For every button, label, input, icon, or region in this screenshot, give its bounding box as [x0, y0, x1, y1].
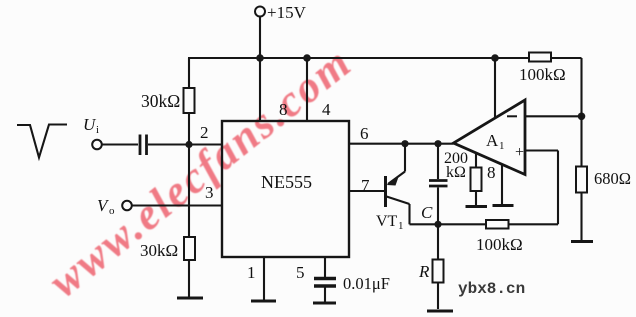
- waveform symbol: [17, 125, 67, 158]
- wire +15V to rail: [259, 17, 261, 59]
- label 0.01uF pin5: [343, 274, 390, 293]
- label 0.01uF input: [118, 156, 165, 175]
- terminal Vo: [122, 201, 132, 211]
- label Ui: [83, 115, 99, 136]
- svg-text:8: 8: [487, 163, 496, 182]
- svg-text:2: 2: [200, 123, 209, 142]
- svg-text:o: o: [109, 205, 115, 217]
- svg-text:30kΩ: 30kΩ: [140, 241, 178, 260]
- resistor 680: [576, 116, 587, 240]
- svg-text:NE555: NE555: [261, 172, 312, 192]
- label 8 opamp: [487, 163, 496, 182]
- label +15V: [267, 3, 307, 22]
- label minus: [507, 115, 517, 117]
- label 6: [360, 124, 369, 143]
- label 30k lower: [140, 241, 178, 260]
- terminal Ui: [92, 140, 102, 150]
- capacitor 0.01uF input: [140, 135, 147, 156]
- wire pin 8: [259, 58, 261, 121]
- junction collector: [401, 140, 408, 147]
- ground 680: [571, 240, 593, 243]
- wire pin 5: [324, 257, 326, 277]
- svg-text:ybx8.cn: ybx8.cn: [458, 280, 525, 298]
- ground pin5: [313, 302, 336, 305]
- svg-text:+15V: +15V: [267, 3, 307, 22]
- svg-text:3: 3: [205, 183, 214, 202]
- label 100k upper: [519, 65, 566, 84]
- opamp supply wire: [494, 58, 496, 118]
- svg-text:A: A: [486, 131, 499, 150]
- label 5: [296, 263, 305, 282]
- resistor 30k lower: [184, 237, 195, 297]
- wire pin 7: [349, 190, 385, 192]
- label 7: [361, 176, 370, 195]
- label 680: [594, 169, 631, 188]
- svg-text:1: 1: [398, 220, 404, 232]
- svg-text:8: 8: [279, 100, 288, 119]
- junction rail pin8: [256, 54, 264, 62]
- label R: [418, 262, 430, 281]
- ground bias: [177, 297, 203, 300]
- terminal +15V: [255, 7, 265, 17]
- wire pin 1: [263, 257, 265, 300]
- label 2: [200, 123, 209, 142]
- label plus: [515, 144, 524, 161]
- svg-text:6: 6: [360, 124, 369, 143]
- label 100k lower: [476, 235, 523, 254]
- label 30k upper: [141, 91, 180, 111]
- label C: [421, 203, 433, 222]
- wire minus input: [525, 115, 582, 117]
- feedback wire: [580, 58, 582, 116]
- resistor 30k upper: [184, 58, 195, 145]
- svg-text:VT: VT: [376, 213, 398, 230]
- svg-text:1: 1: [499, 140, 505, 152]
- wire capacitor to pin2: [148, 143, 222, 145]
- label 200k: [444, 150, 468, 181]
- wire cap to ground: [324, 287, 326, 302]
- capacitor C: [429, 144, 448, 225]
- ground 200k: [466, 205, 488, 208]
- junction cap C branch: [434, 140, 441, 147]
- bias divider wire: [188, 145, 190, 238]
- label 8: [279, 100, 288, 119]
- svg-text:1: 1: [247, 263, 256, 282]
- label 4: [322, 100, 331, 119]
- resistor 200k: [471, 153, 482, 205]
- svg-text:30kΩ: 30kΩ: [141, 91, 180, 111]
- wire pin 3: [132, 204, 223, 206]
- power rail: [188, 57, 529, 59]
- ground pin 8: [493, 204, 514, 207]
- svg-text:C: C: [421, 203, 433, 222]
- junction minus input: [578, 113, 586, 121]
- svg-text:0.01μF: 0.01μF: [343, 274, 390, 293]
- svg-text:7: 7: [361, 176, 370, 195]
- svg-text:kΩ: kΩ: [446, 164, 466, 181]
- label Vo: [97, 196, 115, 217]
- svg-text:100kΩ: 100kΩ: [519, 65, 566, 84]
- label VT1: [376, 213, 404, 232]
- svg-text:5: 5: [296, 263, 305, 282]
- svg-text:+: +: [515, 144, 524, 161]
- IC NE555: [222, 121, 349, 257]
- wire opamp pin 8: [501, 165, 503, 205]
- resistor 100k lower: [438, 220, 558, 229]
- transistor VT1: [386, 144, 439, 225]
- resistor 100k upper: [529, 53, 551, 62]
- wire pin 4: [306, 58, 308, 121]
- wire pin 6: [349, 143, 454, 145]
- label 3: [205, 183, 214, 202]
- svg-text:100kΩ: 100kΩ: [476, 235, 523, 254]
- op-amp A1: [454, 100, 526, 175]
- svg-text:4: 4: [322, 100, 331, 119]
- ground R: [427, 310, 453, 313]
- svg-text:U: U: [83, 115, 97, 134]
- label 1: [247, 263, 256, 282]
- svg-text:R: R: [418, 262, 430, 281]
- capacitor 0.01uF pin5: [314, 279, 336, 287]
- junction rail opamp supply: [491, 54, 499, 62]
- label NE555: [261, 172, 312, 192]
- svg-text:680Ω: 680Ω: [594, 169, 631, 188]
- wire input to capacitor: [102, 143, 139, 145]
- label A1: [486, 131, 505, 152]
- ground pin1: [251, 300, 276, 303]
- wire plus input feedback: [525, 151, 558, 225]
- junction rail pin4: [303, 54, 311, 62]
- junction node C: [434, 221, 441, 228]
- resistor R: [433, 224, 444, 309]
- junction node 2: [185, 141, 192, 148]
- watermark www.elecfans.com: [40, 37, 361, 307]
- svg-text:i: i: [96, 124, 99, 136]
